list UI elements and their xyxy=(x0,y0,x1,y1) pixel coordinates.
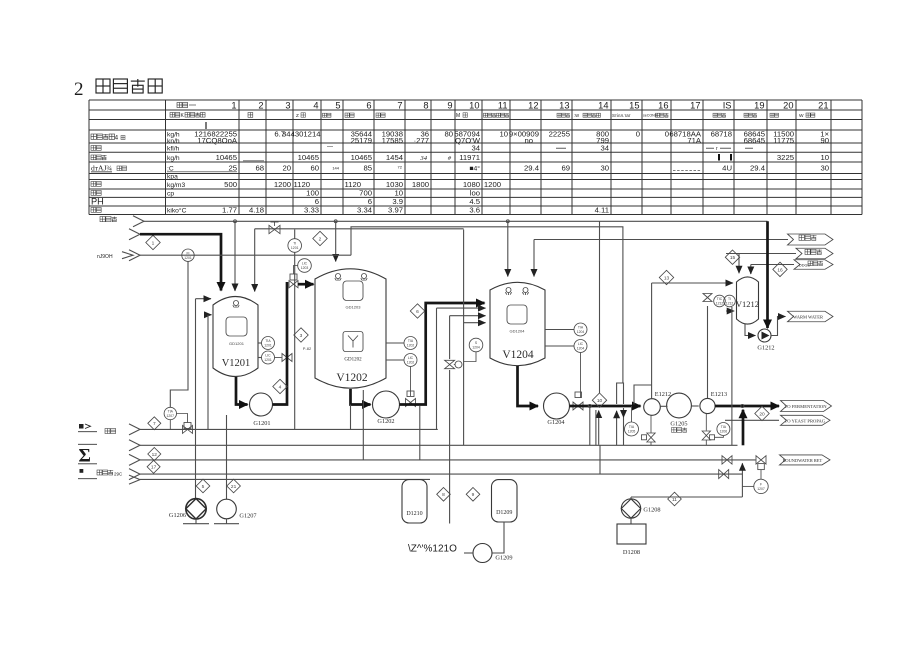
svg-text:■4°: ■4° xyxy=(469,165,480,173)
column V1212 xyxy=(736,277,759,324)
diamond 16 xyxy=(773,262,787,276)
svg-text:0: 0 xyxy=(665,130,669,139)
instrument TIA-1202 xyxy=(386,337,417,350)
svg-text:6: 6 xyxy=(416,309,419,315)
svg-text:20: 20 xyxy=(783,100,793,110)
svg-text:11775: 11775 xyxy=(773,136,794,145)
wire: drain from G1202 valve station xyxy=(419,406,421,460)
diamond 11 xyxy=(668,492,682,506)
svg-text:TIC: TIC xyxy=(717,297,723,301)
svg-text:TI: TI xyxy=(728,297,731,301)
wire: line E1212-G1205 xyxy=(660,405,667,407)
saccharification vessel G1205 xyxy=(667,393,692,432)
input chevron: mash feed (bold) xyxy=(129,229,140,240)
diamond 7 xyxy=(148,417,161,430)
wire: drain below V1202 outlet elbow xyxy=(350,405,352,430)
svg-text:P-82: P-82 xyxy=(303,346,312,351)
svg-text:7: 7 xyxy=(153,421,156,427)
wire: NaOH line xyxy=(140,254,351,256)
wire: E1212 bypass loop xyxy=(634,385,652,405)
svg-text:TO FERMENTATION: TO FERMENTATION xyxy=(785,404,828,409)
input chevron bottom 4 xyxy=(129,469,140,480)
svg-text:G1207: G1207 xyxy=(239,513,256,520)
output banner WARM WATER xyxy=(788,311,834,322)
svg-text:G1205: G1205 xyxy=(670,421,687,428)
svg-text:TIA: TIA xyxy=(629,425,635,429)
svg-text:LIC: LIC xyxy=(578,342,584,346)
output banner distilled water xyxy=(796,248,833,259)
wire: NaOH overhead route to saccharification xyxy=(351,227,623,383)
svg-text:TIA: TIA xyxy=(578,326,584,330)
instrument LIC-1201 xyxy=(258,351,275,364)
node J5 xyxy=(741,404,744,407)
svg-text:Z: Z xyxy=(296,113,299,118)
wire: drop line A under mash line xyxy=(589,406,591,445)
wire: washwater header to banner xyxy=(534,239,788,241)
svg-text:LIC: LIC xyxy=(265,354,271,358)
instrument TIA-1205 xyxy=(625,406,639,436)
svg-text:1800: 1800 xyxy=(412,180,429,189)
svg-text:80: 80 xyxy=(444,130,453,139)
svg-text:15: 15 xyxy=(730,255,736,261)
valve left of V1212 xyxy=(703,294,712,399)
angle control valve on line B xyxy=(445,360,462,368)
wire: G1209 suction stub xyxy=(464,552,473,554)
svg-text:25: 25 xyxy=(228,164,237,173)
diamond 10 xyxy=(592,393,606,407)
instrument TIC-1212 pair xyxy=(714,295,736,307)
svg-text:D1208: D1208 xyxy=(623,549,640,556)
wire: V1201 left inlet 1 xyxy=(196,299,212,499)
margin symbol: groundwater tag xyxy=(78,469,123,479)
svg-text:Sтілл.тат: Sтілл.тат xyxy=(612,113,631,118)
wire: pipe bridge over mash line xyxy=(617,383,624,404)
svg-text:WARM WATER: WARM WATER xyxy=(793,315,823,320)
svg-text:34: 34 xyxy=(600,144,609,153)
svg-text:10465: 10465 xyxy=(298,153,319,162)
svg-text:kg/h: kg/h xyxy=(167,155,180,162)
instrument LIC-1203 xyxy=(298,259,312,273)
diamond 21 xyxy=(227,479,241,493)
svg-text:4: 4 xyxy=(279,384,282,390)
wire: LIC-1202 to discharge valve xyxy=(410,367,412,397)
svg-text:344301214: 344301214 xyxy=(282,130,321,139)
output banner TO YEAST PROPAG xyxy=(781,415,831,425)
svg-text:TI: TI xyxy=(293,242,296,246)
pump G1209 xyxy=(473,544,513,563)
svg-text:29C: 29C xyxy=(114,472,123,477)
svg-text:LIC: LIC xyxy=(302,262,308,266)
wire: NaOH drop to bottom header xyxy=(170,261,188,407)
svg-text:20: 20 xyxy=(759,411,765,417)
svg-text:GD1202: GD1202 xyxy=(344,358,362,363)
svg-text:IS: IS xyxy=(723,100,732,110)
svg-text:\Z^'%121O: \Z^'%121O xyxy=(408,544,457,555)
diamond 4 xyxy=(273,379,287,393)
svg-text:dтAJ¾: dтAJ¾ xyxy=(91,164,112,173)
svg-text:no: no xyxy=(524,136,533,145)
svg-text:1: 1 xyxy=(152,240,155,246)
svg-text:15: 15 xyxy=(629,100,639,110)
wire: riser C with arrow xyxy=(616,411,618,446)
svg-text:1200: 1200 xyxy=(274,180,291,189)
tank D1208 xyxy=(617,524,646,556)
svg-text:1206: 1206 xyxy=(720,430,728,434)
svg-text:17: 17 xyxy=(151,465,157,471)
svg-text:1207: 1207 xyxy=(757,487,765,491)
svg-text:12: 12 xyxy=(528,100,538,110)
svg-text:TIA: TIA xyxy=(168,410,174,414)
svg-text:10: 10 xyxy=(499,130,508,139)
wire: riser from line2 to mash line right xyxy=(742,410,745,446)
svg-text:D1209: D1209 xyxy=(496,510,512,516)
wire: V1201 left inlet 2 xyxy=(208,315,212,430)
svg-text:V1204: V1204 xyxy=(502,349,534,361)
diamond 8 xyxy=(437,488,451,502)
svg-text:4: 4 xyxy=(313,100,318,110)
wire: G1208 to tank D1208 xyxy=(630,518,632,524)
svg-text:GD1201: GD1201 xyxy=(229,341,245,346)
diamond 9 xyxy=(466,488,480,502)
svg-text:1203: 1203 xyxy=(301,266,309,270)
wire: vertical under V1202 xyxy=(362,390,364,460)
svg-text:1201: 1201 xyxy=(264,358,272,362)
wire: G1208 discharge to groundwater return xyxy=(631,463,742,499)
svg-text:10: 10 xyxy=(820,153,829,162)
svg-text:30: 30 xyxy=(600,164,609,173)
wire: V1202 bottom outlet to pump G1202 xyxy=(351,389,371,405)
svg-text:E1213: E1213 xyxy=(711,391,727,398)
wire: bottom header 3 / groundwater return xyxy=(140,459,756,461)
wire: line G1205-E1213 xyxy=(692,405,699,407)
pump G1204 xyxy=(544,393,570,426)
svg-text:21: 21 xyxy=(231,484,237,490)
instrument TI below valve xyxy=(288,230,302,253)
svg-text:FI: FI xyxy=(186,251,189,255)
data row 4: temperature C xyxy=(91,164,829,173)
svg-text:kfl/h: kfl/h xyxy=(167,146,180,153)
svg-text:3.6: 3.6 xyxy=(469,206,480,215)
svg-text:1201: 1201 xyxy=(291,246,299,250)
instrument LIC-1204 xyxy=(545,340,587,353)
data row 6: density kg/m3 xyxy=(91,180,501,189)
pump G1208 rotary xyxy=(621,499,660,518)
svg-text:F: F xyxy=(760,483,762,487)
svg-text:2: 2 xyxy=(74,79,84,100)
input chevron bottom 5 xyxy=(129,475,140,484)
wire: distillate line into V1212 xyxy=(726,254,796,274)
svg-text:8: 8 xyxy=(442,492,445,498)
wire: warm water from G1212 xyxy=(771,317,786,336)
wire: bold drop to V1201 top right xyxy=(254,229,256,292)
svg-text:22255: 22255 xyxy=(549,130,570,139)
svg-text:29.4: 29.4 xyxy=(524,164,540,173)
svg-text:V1212: V1212 xyxy=(736,299,759,309)
wire: bottom header 1 xyxy=(140,428,438,430)
control valve on line y229 xyxy=(269,222,280,234)
data row 7: viscosity cp xyxy=(91,189,480,198)
wire: riser x599 from top header xyxy=(599,221,601,393)
instrument TIA-1207 on NaOH dosing xyxy=(164,407,187,429)
svg-text:kn/h: kn/h xyxy=(167,138,180,145)
svg-text:10465: 10465 xyxy=(216,153,237,162)
wire: second top drop into V1204 xyxy=(533,240,535,277)
svg-text:68718: 68718 xyxy=(711,130,732,139)
wire: DDGS condensate into V1212 xyxy=(751,265,794,275)
svg-text:G1209: G1209 xyxy=(495,555,512,562)
svg-text:·277: ·277 xyxy=(414,136,429,145)
svg-text:1454: 1454 xyxy=(386,153,404,162)
svg-text:GD1203: GD1203 xyxy=(346,305,362,310)
node J4 xyxy=(588,404,591,407)
svg-text:1204: 1204 xyxy=(577,330,585,334)
data row 3: dry solids kg/h xyxy=(91,153,829,162)
svg-text:G1208: G1208 xyxy=(643,507,660,514)
svg-text:1080: 1080 xyxy=(463,180,480,189)
blank spacer row tick xyxy=(205,122,207,129)
svg-text:TIA: TIA xyxy=(265,339,271,343)
svg-text:69: 69 xyxy=(561,164,570,173)
svg-text:34: 34 xyxy=(419,155,427,162)
instrument F-1207 xyxy=(742,479,768,493)
svg-text:1201: 1201 xyxy=(184,256,192,260)
svg-text:16: 16 xyxy=(777,267,783,273)
wire: bold arrow into V1202 xyxy=(298,283,314,286)
svg-text:3.33: 3.33 xyxy=(304,206,319,215)
svg-text:29.4: 29.4 xyxy=(750,164,766,173)
wire: drop to V1202 top xyxy=(335,221,337,261)
svg-text:1: 1 xyxy=(231,100,236,110)
wire: G1201 discharge riser xyxy=(273,282,288,405)
wire: riser from line2 to mash line xyxy=(598,411,600,445)
svg-text:5: 5 xyxy=(202,484,205,490)
svg-text:30: 30 xyxy=(820,164,829,173)
svg-text:TIA: TIA xyxy=(721,425,727,429)
svg-text:17CQ8OoA: 17CQ8OoA xyxy=(197,136,238,145)
svg-text:19: 19 xyxy=(754,100,764,110)
svg-text:G1212: G1212 xyxy=(757,345,774,352)
svg-text:21: 21 xyxy=(818,100,828,110)
svg-text:BOUNDWATER RET: BOUNDWATER RET xyxy=(783,458,823,463)
instrument LIC-1202 xyxy=(386,354,417,367)
wire: V1204 bottom outlet to pump G1204 xyxy=(518,366,539,406)
double valve on header 4 xyxy=(719,470,724,479)
svg-text:E1212: E1212 xyxy=(655,391,671,398)
valve on G1202 discharge xyxy=(406,391,416,407)
pump G1202 xyxy=(373,391,400,425)
svg-text:G1202: G1202 xyxy=(377,418,394,425)
diamond 1 xyxy=(146,235,160,249)
svg-text:2: 2 xyxy=(319,236,322,242)
valve on groundwater return xyxy=(756,456,766,480)
angle valve under E1212 xyxy=(642,415,656,445)
svg-text:3: 3 xyxy=(300,333,303,339)
diamond 5 xyxy=(196,479,210,493)
svg-text:5: 5 xyxy=(335,100,340,110)
wire: bold mash line through exchangers xyxy=(570,405,641,408)
wire: TI drop to bottom area xyxy=(294,253,296,430)
svg-text:M: M xyxy=(456,113,460,119)
svg-text:25179: 25179 xyxy=(351,136,372,145)
svg-text:4.11: 4.11 xyxy=(595,206,609,215)
svg-text:7: 7 xyxy=(397,100,402,110)
svg-text:13: 13 xyxy=(664,275,670,281)
wire: E1212 shell riser to V1212 feed xyxy=(651,283,653,399)
diamond 17 xyxy=(147,460,160,473)
svg-text:kрa: kрa xyxy=(167,174,178,181)
wire: G1202 discharge riser to V1204 xyxy=(400,303,485,405)
diamond 3 xyxy=(294,328,312,351)
wire: D1209 to pump G1209 xyxy=(493,522,505,553)
wire: bottom header 4 xyxy=(140,473,742,475)
svg-text:TO YEAST PROPAG: TO YEAST PROPAG xyxy=(785,418,826,423)
wire: V1204 inlet line C from y229 xyxy=(464,230,486,446)
svg-text:13: 13 xyxy=(559,100,569,110)
input chevron: waste wash water xyxy=(100,216,144,227)
wire: V1204 inlet line B xyxy=(450,316,486,524)
instrument on NaOH line xyxy=(182,249,194,261)
svg-text:10465: 10465 xyxy=(351,153,372,162)
wire: V1201 bottom outlet to pump G1201 xyxy=(236,377,248,405)
wire: drop line B under mash line xyxy=(595,410,597,445)
vessel V1201 xyxy=(213,297,258,377)
svg-text:11: 11 xyxy=(672,497,677,503)
pump G1201 xyxy=(250,393,273,427)
instrument TIA-1201 xyxy=(258,337,275,350)
input chevron bottom 1 xyxy=(129,424,140,435)
svg-text:3.34: 3.34 xyxy=(357,206,373,215)
wire: top header line 1 xyxy=(144,220,768,222)
diamond 12 xyxy=(148,448,161,461)
svg-text:20: 20 xyxy=(282,164,291,173)
output banner wash water xyxy=(788,234,834,245)
svg-text:1205: 1205 xyxy=(628,430,636,434)
svg-text:1120: 1120 xyxy=(344,180,361,189)
heat exchanger E1212 xyxy=(644,391,672,415)
svg-text:kiko°C: kiko°C xyxy=(167,207,187,215)
svg-text:3: 3 xyxy=(285,100,290,110)
svg-text:71A: 71A xyxy=(687,136,702,145)
wire: bottom header 5 xyxy=(140,478,430,480)
output banner DDGS condensate xyxy=(794,260,833,270)
svg-text:72: 72 xyxy=(398,165,403,170)
diamond 6 xyxy=(410,304,424,318)
svg-text:17: 17 xyxy=(690,100,700,110)
svg-text:1030: 1030 xyxy=(386,180,403,189)
wire: bottom header 2 xyxy=(140,444,738,446)
svg-text:LIC: LIC xyxy=(408,356,414,360)
wire: bold steam riser to G1212 xyxy=(766,221,769,328)
svg-text:14: 14 xyxy=(598,100,608,110)
svg-text:1204: 1204 xyxy=(472,346,480,350)
svg-text:G1201: G1201 xyxy=(253,420,270,427)
diamond 2 xyxy=(313,231,327,245)
wire: drop to V1201 top xyxy=(234,221,236,291)
control valve on V1201 recirculation xyxy=(275,354,293,362)
wire: condensate sub-header xyxy=(599,445,601,474)
wire: V1212 bottoms to pump xyxy=(745,324,756,336)
svg-text:—: — xyxy=(327,145,333,151)
data row 1: flow kg/h xyxy=(91,130,829,145)
svg-text:12: 12 xyxy=(152,452,158,458)
valve+actuator on V1202 feed xyxy=(289,266,298,288)
svg-text:4U: 4U xyxy=(722,164,732,173)
svg-text:9: 9 xyxy=(447,100,452,110)
instrument S-1204 xyxy=(464,338,483,361)
svg-text:W: W xyxy=(799,113,804,119)
wire: yeast propagation line xyxy=(725,419,779,421)
wire: V1204 inlet line A xyxy=(437,308,486,429)
svg-text:68645: 68645 xyxy=(744,136,765,145)
wire: TIC-1212 drop to header 2 xyxy=(731,307,733,445)
svg-text:34: 34 xyxy=(471,144,480,153)
svg-text:TIA: TIA xyxy=(408,339,414,343)
wire: drop to V1204 top left xyxy=(507,221,509,276)
pump G1206 rotary xyxy=(169,499,209,524)
diamond 20 xyxy=(755,406,769,420)
wire: LIC-1204 drop to valve xyxy=(580,353,582,399)
svg-text:1204: 1204 xyxy=(577,347,585,351)
node J1 xyxy=(234,220,237,223)
svg-text:1207: 1207 xyxy=(167,414,175,418)
svg-text:D1210: D1210 xyxy=(406,511,422,517)
data row 2: alcohol kN/h xyxy=(91,144,753,153)
svg-text:11: 11 xyxy=(498,100,508,110)
table header row 2: phase labels xyxy=(170,113,815,120)
vessel V1202 xyxy=(315,269,386,388)
tank D1210 xyxy=(402,480,427,523)
svg-text:cp: cp xyxy=(167,191,174,198)
title: 2 (zhuanhua gongxu) xyxy=(74,79,162,100)
valve on G1204 discharge xyxy=(573,392,583,410)
node J3 xyxy=(506,220,509,223)
vessel V1204 xyxy=(490,282,545,365)
svg-text:11971: 11971 xyxy=(459,153,480,162)
node J2 xyxy=(334,220,337,223)
svg-text:1202: 1202 xyxy=(407,361,415,365)
svg-text:V1202: V1202 xyxy=(336,372,368,384)
data row 8: PH xyxy=(91,197,480,207)
svg-text:2: 2 xyxy=(258,100,263,110)
svg-text:144: 144 xyxy=(332,165,339,170)
svg-text:10: 10 xyxy=(469,100,479,110)
heat exchanger E1213 xyxy=(700,391,727,414)
svg-text:500: 500 xyxy=(224,180,237,189)
svg-text:4: 4 xyxy=(115,135,119,142)
margin symbol: sigma tag xyxy=(78,444,97,466)
svg-text:90: 90 xyxy=(820,136,829,145)
svg-text:8: 8 xyxy=(423,100,428,110)
svg-text:nJ9OH: nJ9OH xyxy=(97,254,113,260)
svg-text:3.97: 3.97 xyxy=(388,206,403,215)
data row 9: enthalpy kJ/kgC xyxy=(91,206,609,215)
svg-text:Σ: Σ xyxy=(79,446,91,467)
output banner TO FERMENTATION xyxy=(781,401,832,412)
svg-text:0: 0 xyxy=(636,130,640,139)
svg-text::W: :W xyxy=(574,113,579,118)
svg-text:V1201: V1201 xyxy=(222,358,251,369)
wire: drop below mash line at bridge xyxy=(623,408,625,418)
svg-text:1202: 1202 xyxy=(407,344,415,348)
pump G1212 xyxy=(757,329,774,352)
valve with actuator on header 1 xyxy=(183,423,193,434)
svg-text:G1206: G1206 xyxy=(169,512,186,519)
output banner GROUNDWATER RET xyxy=(780,455,831,465)
diamond 13 xyxy=(659,270,673,284)
svg-text:16: 16 xyxy=(658,100,668,110)
wire: bold line to fermentation xyxy=(715,405,779,408)
svg-text:kg/m3: kg/m3 xyxy=(167,182,185,189)
